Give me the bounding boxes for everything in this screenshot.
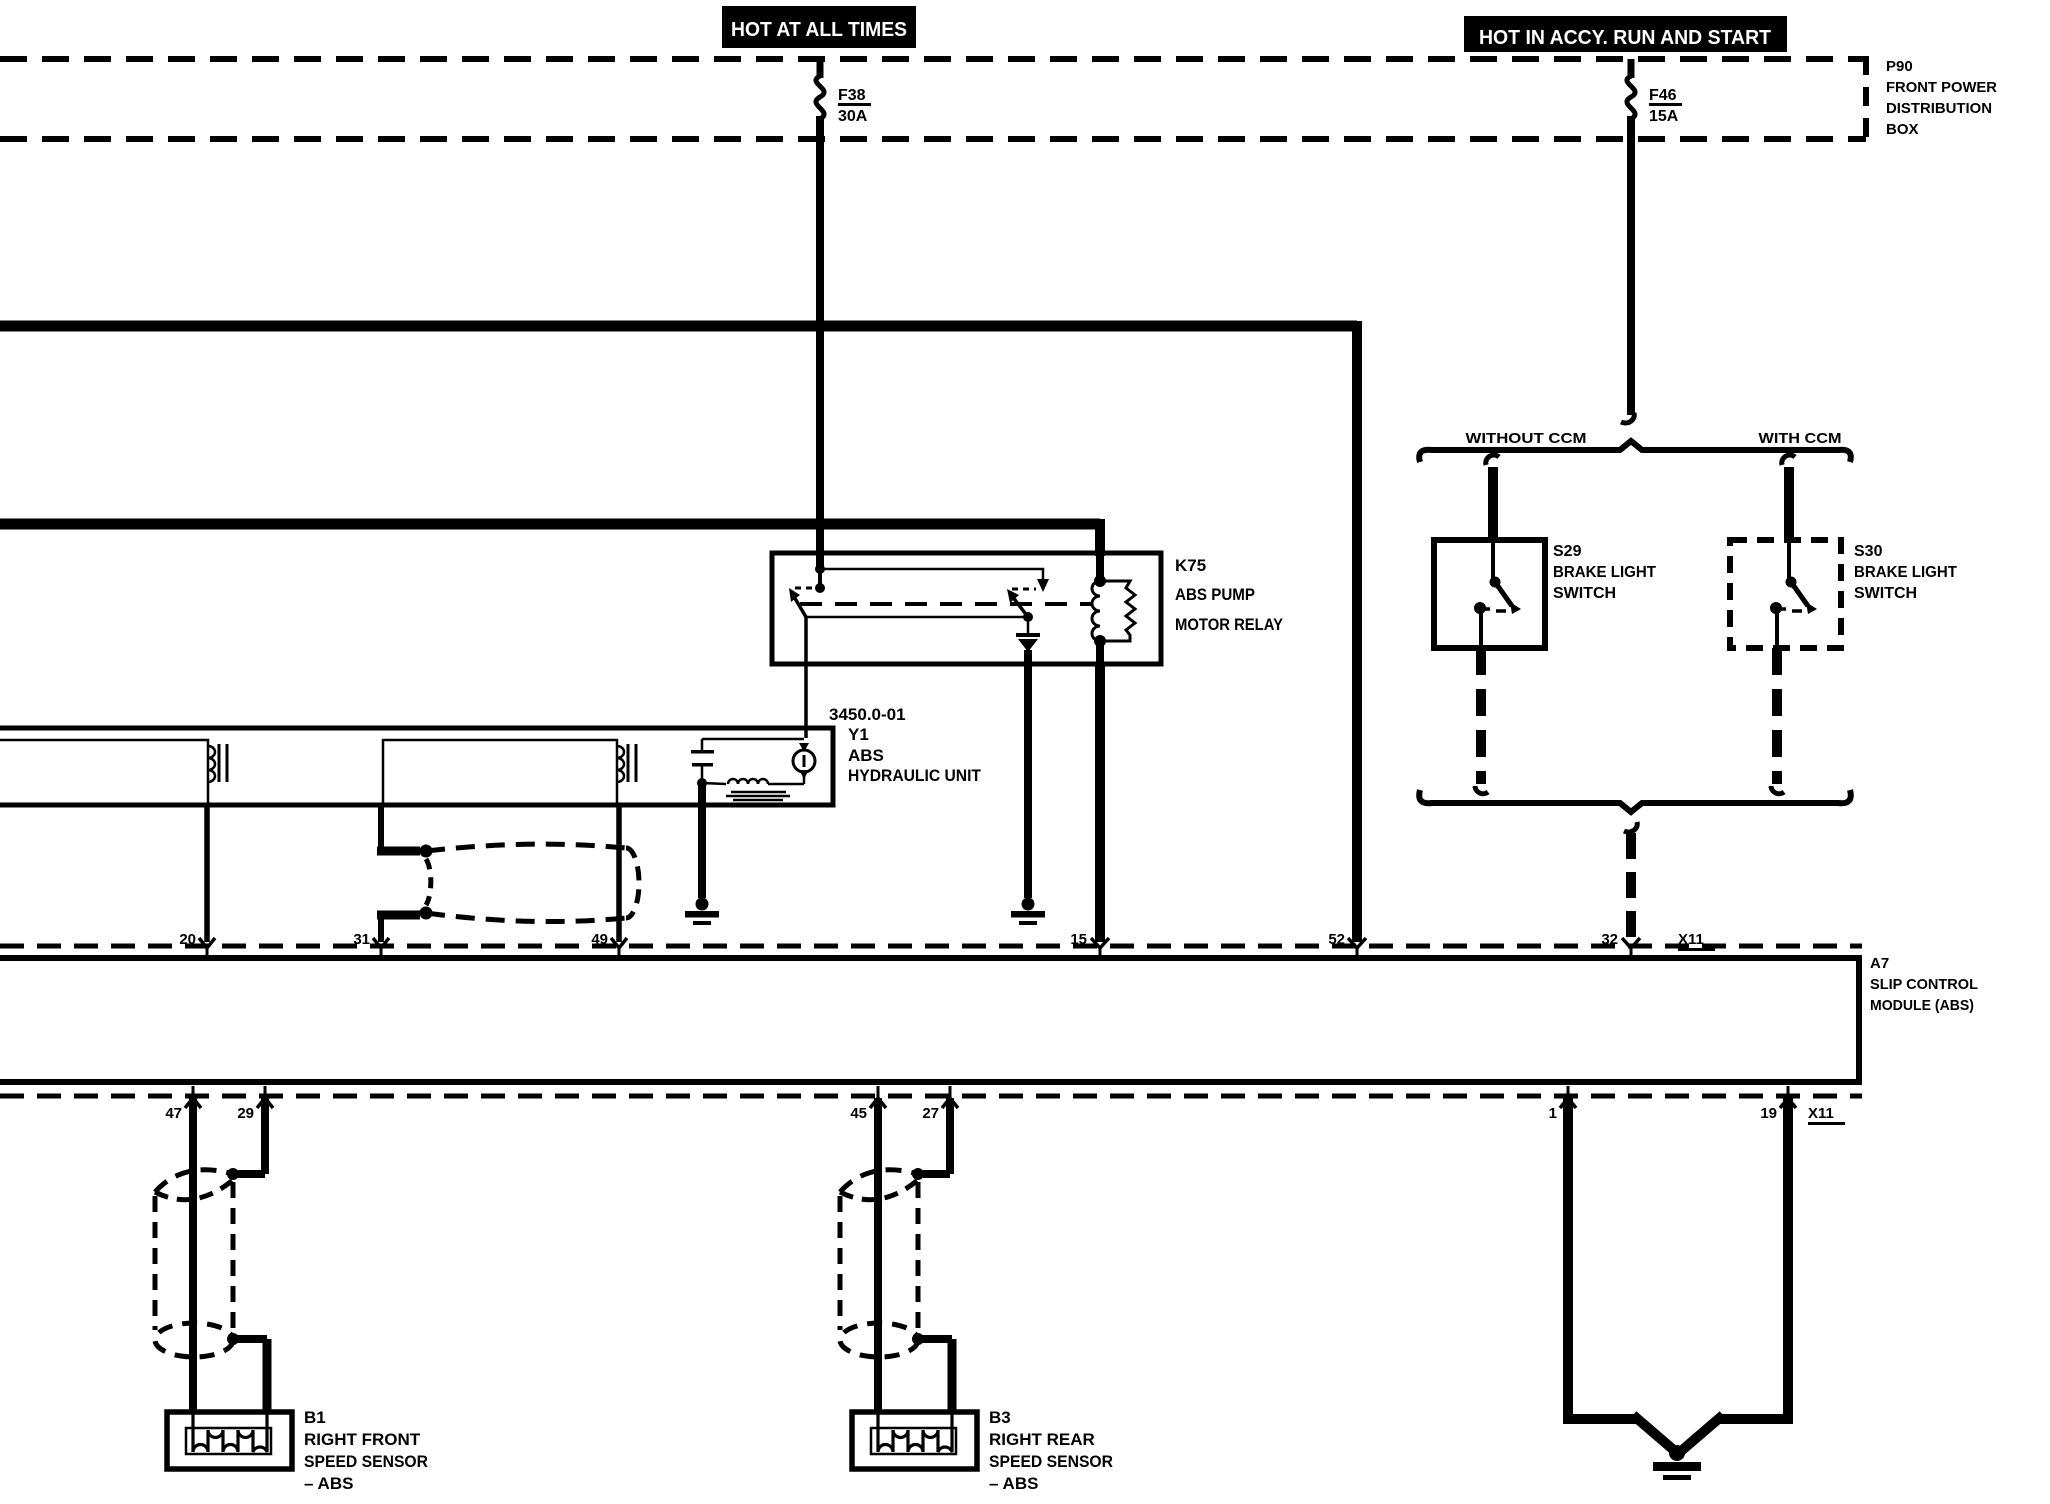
- solenoid valve group 2: [383, 740, 636, 803]
- ground (hydraulic unit): [685, 898, 719, 926]
- wire to S30: [1782, 455, 1795, 540]
- wire shield to connector (B1): [233, 1339, 267, 1412]
- svg-text:P90: P90: [1886, 58, 1913, 75]
- wire F38 to relay K75: [816, 116, 824, 570]
- ground (relay): [1011, 898, 1045, 926]
- connector B1: [167, 1412, 292, 1469]
- solenoid valve group 1: [0, 740, 227, 803]
- svg-text:RIGHT REAR: RIGHT REAR: [989, 1430, 1095, 1449]
- svg-text:MODULE (ABS): MODULE (ABS): [1870, 997, 1974, 1014]
- hydraulic unit Y1 box: [0, 705, 982, 805]
- svg-text:ABS PUMP: ABS PUMP: [1175, 585, 1255, 604]
- svg-text:27: 27: [922, 1105, 939, 1122]
- svg-text:B3: B3: [989, 1408, 1011, 1427]
- wire pin 47: [185, 1086, 201, 1412]
- shield cylinder (B3): [840, 1170, 924, 1357]
- ground (module): [1653, 1445, 1701, 1480]
- wire bus to pin 52: [0, 321, 1366, 959]
- fuse F46 15A: [1627, 59, 1682, 125]
- svg-text:20: 20: [179, 931, 196, 948]
- A7 slip control module box: [0, 946, 1978, 1096]
- svg-text:30A: 30A: [838, 108, 868, 125]
- wire brace to pin 32 (dashed): [1622, 822, 1640, 959]
- wire pin 19 to ground: [1680, 1086, 1796, 1452]
- svg-text:SWITCH: SWITCH: [1553, 585, 1616, 602]
- svg-text:WITH CCM: WITH CCM: [1759, 430, 1842, 447]
- svg-text:B1: B1: [304, 1408, 326, 1427]
- svg-text:S29: S29: [1553, 543, 1582, 560]
- svg-text:HYDRAULIC UNIT: HYDRAULIC UNIT: [848, 766, 982, 785]
- wire S29 to brace (dashed): [1475, 648, 1488, 794]
- svg-text:1: 1: [1549, 1105, 1557, 1122]
- wire pin 45: [870, 1086, 886, 1412]
- power label HOT IN ACCY. RUN AND START: [1464, 16, 1787, 52]
- wire pin 1 to ground: [1560, 1086, 1676, 1452]
- wire S30 to brace (dashed): [1771, 648, 1784, 794]
- connector X11 label (top): [1678, 931, 1715, 951]
- svg-text:15: 15: [1070, 931, 1087, 948]
- svg-text:19: 19: [1760, 1105, 1777, 1122]
- relay K75 thin link wire: [805, 616, 1028, 619]
- relay K75 box: [772, 553, 1284, 664]
- power label HOT AT ALL TIMES: [722, 6, 916, 48]
- svg-text:31: 31: [353, 931, 370, 948]
- svg-text:BRAKE LIGHT: BRAKE LIGHT: [1553, 564, 1656, 581]
- wire pin 20: [199, 803, 215, 959]
- P90 front power distribution box (dashed): [0, 56, 1997, 142]
- svg-text:52: 52: [1328, 931, 1345, 948]
- svg-text:BOX: BOX: [1886, 121, 1919, 138]
- svg-text:3450.0-01: 3450.0-01: [829, 705, 906, 724]
- brace to pin 32 (bottom): [1419, 790, 1851, 812]
- label B3: [989, 1408, 1113, 1493]
- brace WITHOUT/WITH CCM (top): [1419, 430, 1851, 462]
- svg-text:S30: S30: [1854, 543, 1883, 560]
- svg-text:HOT AT ALL TIMES: HOT AT ALL TIMES: [731, 19, 907, 41]
- svg-text:FRONT POWER: FRONT POWER: [1886, 79, 1997, 96]
- wire relay coil to pin 15: [1091, 664, 1109, 959]
- svg-text:– ABS: – ABS: [989, 1474, 1038, 1493]
- switch S29 (brake light switch): [1434, 540, 1656, 648]
- svg-text:47: 47: [165, 1105, 182, 1122]
- svg-text:X11: X11: [1808, 1105, 1834, 1122]
- wire F46 to CCM branch brace: [1621, 116, 1634, 423]
- wire to S29: [1486, 455, 1499, 540]
- svg-text:F46: F46: [1649, 87, 1677, 104]
- svg-text:Y1: Y1: [848, 725, 869, 744]
- relay K75 motor contact arm: [789, 588, 816, 617]
- relay K75 contact common node: [815, 564, 1049, 593]
- shield cylinder (pins 31/49): [426, 844, 639, 921]
- relay K75 linkage (dashed): [800, 602, 1092, 606]
- svg-text:32: 32: [1601, 931, 1618, 948]
- svg-text:29: 29: [237, 1105, 254, 1122]
- shield cylinder (B1): [155, 1170, 239, 1357]
- svg-text:45: 45: [850, 1105, 867, 1122]
- svg-text:ABS: ABS: [848, 746, 884, 765]
- connector B3: [852, 1412, 977, 1469]
- wire hydraulic unit to ground: [698, 783, 706, 898]
- svg-text:F38: F38: [838, 87, 866, 104]
- label B1: [304, 1408, 428, 1493]
- wire bus to relay coil: [0, 519, 1100, 556]
- relay K75 diode element: [1016, 617, 1040, 652]
- capacitor (hydraulic unit): [691, 739, 714, 788]
- svg-text:SLIP CONTROL: SLIP CONTROL: [1870, 976, 1978, 993]
- wire shield to connector (B3): [918, 1339, 952, 1412]
- svg-text:49: 49: [591, 931, 608, 948]
- svg-text:SWITCH: SWITCH: [1854, 585, 1917, 602]
- switch S30 (brake light switch, dashed): [1730, 540, 1957, 648]
- svg-text:DISTRIBUTION: DISTRIBUTION: [1886, 100, 1992, 117]
- svg-text:BRAKE LIGHT: BRAKE LIGHT: [1854, 564, 1957, 581]
- relay K75 aux contact arm: [1007, 589, 1036, 622]
- relay K75 coil: [1092, 556, 1135, 664]
- svg-text:15A: 15A: [1649, 108, 1679, 125]
- svg-text:WITHOUT CCM: WITHOUT CCM: [1466, 430, 1587, 447]
- svg-text:X11: X11: [1678, 931, 1704, 948]
- fuse F38 30A: [816, 59, 871, 125]
- svg-text:SPEED SENSOR: SPEED SENSOR: [989, 1452, 1113, 1471]
- svg-text:– ABS: – ABS: [304, 1474, 353, 1493]
- svg-text:MOTOR RELAY: MOTOR RELAY: [1175, 615, 1284, 634]
- wire relay to ground: [1024, 650, 1032, 898]
- suppression inductor (hydraulic unit): [702, 779, 804, 800]
- wire pin 29 to shield: [227, 1086, 273, 1180]
- svg-text:K75: K75: [1175, 556, 1206, 575]
- wire pin 31 with shield connection: [373, 803, 433, 959]
- pump motor M (hydraulic unit): [702, 739, 815, 784]
- wire pin 49: [611, 803, 627, 959]
- wire pin 27 to shield: [912, 1086, 958, 1180]
- svg-text:RIGHT FRONT: RIGHT FRONT: [304, 1430, 421, 1449]
- svg-text:SPEED SENSOR: SPEED SENSOR: [304, 1452, 428, 1471]
- wire relay to pump motor: [804, 617, 808, 738]
- connector X11 label (bottom): [1808, 1105, 1845, 1125]
- svg-text:A7: A7: [1870, 955, 1889, 972]
- svg-text:HOT IN ACCY. RUN AND START: HOT IN ACCY. RUN AND START: [1479, 27, 1771, 49]
